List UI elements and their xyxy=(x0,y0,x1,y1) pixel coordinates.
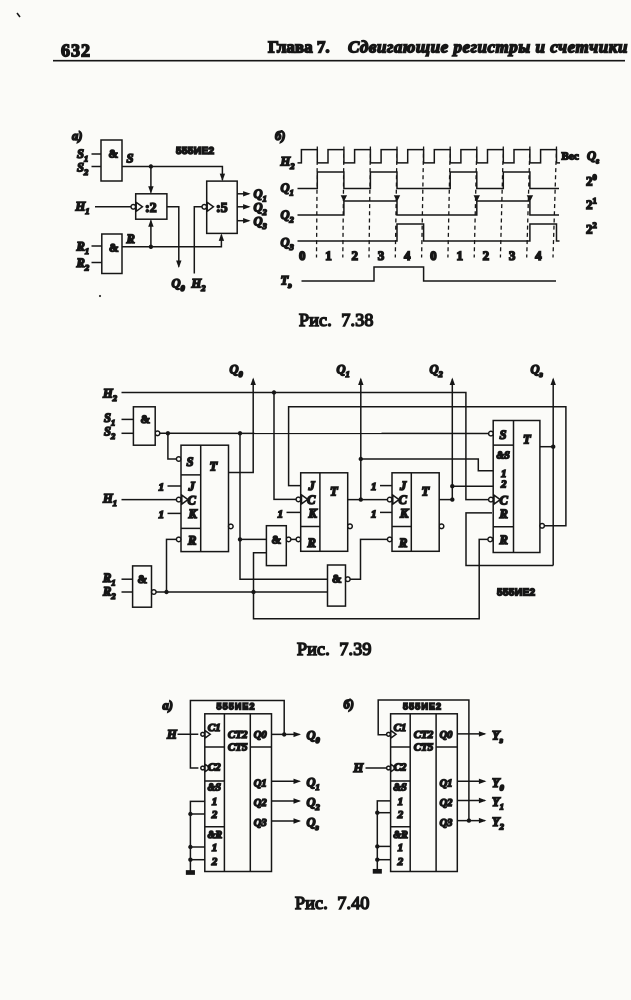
svg-text:555ИЕ2: 555ИЕ2 xyxy=(176,146,215,157)
svg-text:C1: C1 xyxy=(394,722,407,734)
svg-text:&: & xyxy=(138,574,148,586)
svg-text:1: 1 xyxy=(398,842,404,854)
svg-text:Qз: Qз xyxy=(307,815,320,832)
wire FF1 output / Q0 arrow xyxy=(229,378,256,473)
svg-text:Глава 7.: Глава 7. xyxy=(268,38,330,57)
svg-text:Сдвигающие регистры и счетчики: Сдвигающие регистры и счетчики xyxy=(348,38,628,57)
wire Q0 output xyxy=(167,207,182,268)
wire Q3-complement feedback line B xyxy=(289,407,566,526)
clock input C1 bubble xyxy=(201,731,210,739)
wire Q1 output arrow xyxy=(358,378,363,500)
svg-text:Tэ: Tэ xyxy=(281,274,293,291)
wire H to C1 xyxy=(178,733,199,735)
wire S1 input xyxy=(92,153,102,155)
svg-text:б): б) xyxy=(344,698,354,712)
svg-text:555ИЕ2: 555ИЕ2 xyxy=(217,702,256,712)
wire H2 to :5 clock xyxy=(194,207,202,274)
svg-text:C1: C1 xyxy=(208,722,221,734)
svg-text:H: H xyxy=(353,761,365,775)
wire S to :2 xyxy=(148,167,153,194)
divider :5 block xyxy=(202,181,237,233)
wire S branch to FF1 xyxy=(168,433,177,459)
svg-text:T: T xyxy=(330,485,339,499)
wire to G3 input 1 xyxy=(240,538,266,540)
svg-text:Q1: Q1 xyxy=(307,776,320,793)
svg-text:а): а) xyxy=(163,699,173,713)
waveform H2 clock xyxy=(298,150,561,163)
wire Q2 output arrow xyxy=(272,798,302,803)
svg-text:CT2: CT2 xyxy=(228,729,248,741)
svg-text:3: 3 xyxy=(509,248,516,263)
wire FF2 output to FF3 clock xyxy=(348,497,388,501)
svg-text:0: 0 xyxy=(299,248,306,263)
wire R net xyxy=(122,233,224,249)
svg-text:21: 21 xyxy=(586,196,597,213)
clock input C1 bubble xyxy=(387,731,396,739)
svg-text:Q2: Q2 xyxy=(254,798,268,809)
waveform Q3 xyxy=(298,224,560,241)
svg-text:&R: &R xyxy=(393,830,408,841)
header rule xyxy=(53,60,625,62)
svg-text:H1: H1 xyxy=(102,492,117,509)
wire R2 input xyxy=(92,262,102,264)
svg-text:Q3: Q3 xyxy=(440,818,453,829)
svg-text:Вес: Вес xyxy=(562,150,579,162)
svg-text:&: & xyxy=(332,574,342,586)
wire FF3 output xyxy=(439,497,454,501)
svg-text:CT5: CT5 xyxy=(228,742,248,754)
wire H2 branch to FF2 clock xyxy=(274,393,296,500)
flip-flop FF2 (JK trigger T) xyxy=(296,473,352,552)
wire G4 out to FF3 R xyxy=(350,539,387,579)
AND gate G3 xyxy=(266,526,291,566)
dashed count boundary lines xyxy=(317,147,557,258)
svg-text:2: 2 xyxy=(397,809,404,821)
svg-text:R1: R1 xyxy=(76,240,90,257)
wire S-bus drop to gates G3 G4 xyxy=(238,433,328,579)
svg-text:&S: &S xyxy=(497,451,511,462)
svg-text:CT2: CT2 xyxy=(414,729,434,741)
svg-text:R2: R2 xyxy=(76,256,90,273)
svg-text:1: 1 xyxy=(398,796,404,808)
svg-text:3: 3 xyxy=(378,248,385,263)
svg-text:555ИЕ2: 555ИЕ2 xyxy=(497,588,536,599)
constant 1 at FF1 K xyxy=(159,509,182,521)
svg-text:H1: H1 xyxy=(75,200,90,217)
svg-text:C: C xyxy=(188,493,197,507)
svg-text:1: 1 xyxy=(212,842,218,854)
svg-text:&: & xyxy=(109,243,119,255)
AND gate S (set) xyxy=(133,407,159,445)
AND gate D2 (R inputs) xyxy=(102,234,122,274)
wire S bus xyxy=(160,431,489,435)
svg-text:Q0: Q0 xyxy=(172,277,186,294)
svg-text:K: K xyxy=(188,507,199,521)
wire Q2 node to FF4 S-and input 2 xyxy=(452,485,493,487)
AND gate R (reset) xyxy=(133,566,157,607)
wire Q1 output arrow Y0 xyxy=(457,779,486,784)
wire Q0 output arrow xyxy=(272,732,302,737)
svg-text:2: 2 xyxy=(500,479,507,491)
constant 1 at FF3 J xyxy=(371,481,392,493)
wire R1 into gate xyxy=(122,578,133,580)
svg-text:1: 1 xyxy=(456,248,463,263)
svg-text:2: 2 xyxy=(211,856,218,868)
svg-text:H2: H2 xyxy=(280,155,296,172)
flip-flop FF3 (JK trigger T) xyxy=(387,473,443,552)
constant 1 at FF3 K xyxy=(371,508,392,520)
wire H1 to FF1 clock xyxy=(122,499,177,501)
svg-text:632: 632 xyxy=(61,41,91,61)
svg-text:1: 1 xyxy=(159,509,165,521)
wire H1 xyxy=(95,206,131,208)
wire Q3 output xyxy=(237,218,250,223)
svg-text:0: 0 xyxy=(430,248,437,263)
svg-text:&S: &S xyxy=(208,783,222,794)
svg-text:Y0: Y0 xyxy=(492,776,505,793)
svg-text:2: 2 xyxy=(483,248,490,263)
clock-edge arrow on Q2 at count boundary 4 xyxy=(394,195,400,202)
svg-text:R: R xyxy=(398,536,407,550)
svg-text:555ИЕ2: 555ИЕ2 xyxy=(403,702,442,712)
counter IC 555ИЕ2 box xyxy=(205,714,272,872)
svg-text:R: R xyxy=(499,533,508,547)
svg-text:4: 4 xyxy=(535,248,542,263)
svg-text:2: 2 xyxy=(352,248,359,263)
svg-text:Рис. 7.39: Рис. 7.39 xyxy=(297,639,372,659)
wire R2 into gate xyxy=(122,591,133,593)
svg-text:Q2: Q2 xyxy=(281,208,295,225)
svg-text:1: 1 xyxy=(371,481,377,493)
waveform Q1 xyxy=(298,172,560,189)
wire Q2 output arrow xyxy=(450,378,455,500)
wire S2 into gate xyxy=(122,432,134,434)
svg-text:Q0: Q0 xyxy=(254,730,268,741)
clock-edge arrow on Q2 at count boundary 7 xyxy=(474,195,480,202)
svg-text:&S: &S xyxy=(393,783,407,794)
svg-text:2: 2 xyxy=(397,856,404,868)
svg-text:Q1: Q1 xyxy=(254,778,267,789)
svg-text:J: J xyxy=(399,479,407,493)
constant 1 at FF1 J xyxy=(159,482,182,494)
svg-text:Рис. 7.38: Рис. 7.38 xyxy=(299,310,374,330)
wire H2 bus to FF4 clock xyxy=(122,390,489,499)
svg-text::2: :2 xyxy=(145,201,157,216)
svg-text:Q0: Q0 xyxy=(230,363,244,380)
AND gate G4 xyxy=(328,565,351,606)
wire R to :2 xyxy=(148,219,153,247)
wire R bus xyxy=(156,590,327,594)
svg-text:R: R xyxy=(126,232,135,246)
svg-text:&: & xyxy=(109,149,119,161)
waveform T3 gate pulse xyxy=(302,267,557,281)
svg-text:1: 1 xyxy=(212,796,218,808)
svg-text:1: 1 xyxy=(278,508,284,520)
ground symbol xyxy=(374,870,382,873)
svg-text:1: 1 xyxy=(325,248,332,263)
svg-text:20: 20 xyxy=(586,172,597,189)
svg-text:Q2: Q2 xyxy=(307,795,321,812)
svg-text:H2: H2 xyxy=(191,277,207,294)
wire Q3 output arrow xyxy=(551,378,556,566)
ground symbol xyxy=(187,871,195,874)
svg-text:J: J xyxy=(308,479,316,493)
page header xyxy=(53,38,628,61)
svg-text:а): а) xyxy=(72,129,82,143)
wire S1 into gate xyxy=(122,418,134,420)
svg-text:Qз: Qз xyxy=(531,363,544,380)
svg-text:T: T xyxy=(210,460,219,474)
svg-text:Q0: Q0 xyxy=(307,729,321,746)
divider :2 block xyxy=(131,194,167,219)
wire bottom bus to FF4 lower R xyxy=(254,539,488,618)
wire G3 out to FF2 R xyxy=(291,538,296,540)
svg-text:T: T xyxy=(422,485,431,499)
wire R1 input xyxy=(92,245,102,247)
wire Q3 output arrow xyxy=(272,818,302,823)
clock-edge arrow on Q2 at count boundary 2 xyxy=(341,195,347,202)
wire R branch to FF1 xyxy=(167,539,177,592)
svg-text:Q0: Q0 xyxy=(440,730,454,741)
AND gate D1 (S inputs) xyxy=(101,140,122,181)
counter IC 555ИЕ2 box xyxy=(391,714,458,872)
svg-text:&: & xyxy=(272,535,282,547)
svg-text:Q2: Q2 xyxy=(430,363,444,380)
svg-text:CT5: CT5 xyxy=(414,742,434,754)
svg-text:1: 1 xyxy=(159,482,165,494)
svg-text:4: 4 xyxy=(404,248,411,263)
wire Q3 node to FF4 upper R xyxy=(466,513,553,566)
clock input C2 bubble xyxy=(201,764,210,772)
grounded set/reset input wires xyxy=(188,801,205,871)
wire Q0 output arrow Y3 xyxy=(457,731,486,736)
wire Q1 output arrow xyxy=(272,779,302,784)
wire Q3 output arrow Y2 xyxy=(457,818,486,823)
wire S2 input xyxy=(92,166,102,168)
clock-edge arrow on Q2 at count boundary 9 xyxy=(527,195,533,202)
wire Q2 output arrow Y1 xyxy=(457,798,486,803)
svg-text:H: H xyxy=(166,728,178,742)
svg-text:1: 1 xyxy=(371,508,377,520)
svg-text:K: K xyxy=(308,506,319,520)
flip-flop FF4 (JK trigger T with gated set) xyxy=(488,421,544,553)
flip-flop FF1 (JK trigger T, divide by 2) xyxy=(176,445,233,551)
wire Q1 output xyxy=(237,191,250,196)
svg-text:б): б) xyxy=(275,129,285,143)
wire S net xyxy=(122,164,225,181)
feedback wire Q0 to C2 xyxy=(190,701,286,769)
svg-text:Q3: Q3 xyxy=(281,236,295,253)
count digit labels 0..4 0..4 xyxy=(299,248,542,263)
svg-text:Q3: Q3 xyxy=(254,818,267,829)
svg-text:K: K xyxy=(399,506,410,520)
svg-text:R: R xyxy=(187,534,196,548)
svg-text:J: J xyxy=(188,480,196,494)
svg-text:T: T xyxy=(523,433,532,447)
svg-text:R: R xyxy=(499,507,508,521)
wire FF4 output xyxy=(540,445,556,449)
svg-text:2: 2 xyxy=(211,809,218,821)
constant 1 at FF2 K xyxy=(278,508,301,520)
grounded set/reset input wires xyxy=(375,801,391,871)
svg-text:22: 22 xyxy=(586,220,597,237)
svg-text:Q1: Q1 xyxy=(440,778,453,789)
wire Q2 output xyxy=(237,204,250,209)
svg-text::5: :5 xyxy=(216,201,228,216)
svg-text:&: & xyxy=(141,414,151,426)
svg-text:Рис. 7.40: Рис. 7.40 xyxy=(295,893,370,913)
svg-text:&R: &R xyxy=(208,830,223,841)
svg-text:Q2: Q2 xyxy=(440,798,454,809)
svg-text:H2: H2 xyxy=(102,387,118,404)
svg-text:R: R xyxy=(307,536,316,550)
svg-text:S: S xyxy=(500,428,507,442)
wire Q1 node to FF4 S-and input 1 xyxy=(361,459,493,471)
svg-text:Yз: Yз xyxy=(492,729,504,746)
svg-text:S: S xyxy=(127,152,134,166)
scan speck xyxy=(99,295,101,297)
wire H to C2 xyxy=(366,767,387,769)
feedback wire Q3 to C1 xyxy=(378,700,471,823)
svg-text:Qг: Qг xyxy=(587,149,599,166)
wire to G3 input 2 xyxy=(254,553,267,592)
svg-text:Q1: Q1 xyxy=(281,181,294,198)
svg-text:Q1: Q1 xyxy=(337,363,350,380)
scan speck top left xyxy=(17,13,20,17)
clock input C2 bubble xyxy=(387,764,396,772)
waveform Q2 xyxy=(298,201,560,215)
svg-text:S: S xyxy=(187,455,194,469)
svg-text:C: C xyxy=(500,493,509,507)
svg-text:Y2: Y2 xyxy=(492,815,505,832)
svg-text:Y1: Y1 xyxy=(492,795,504,812)
